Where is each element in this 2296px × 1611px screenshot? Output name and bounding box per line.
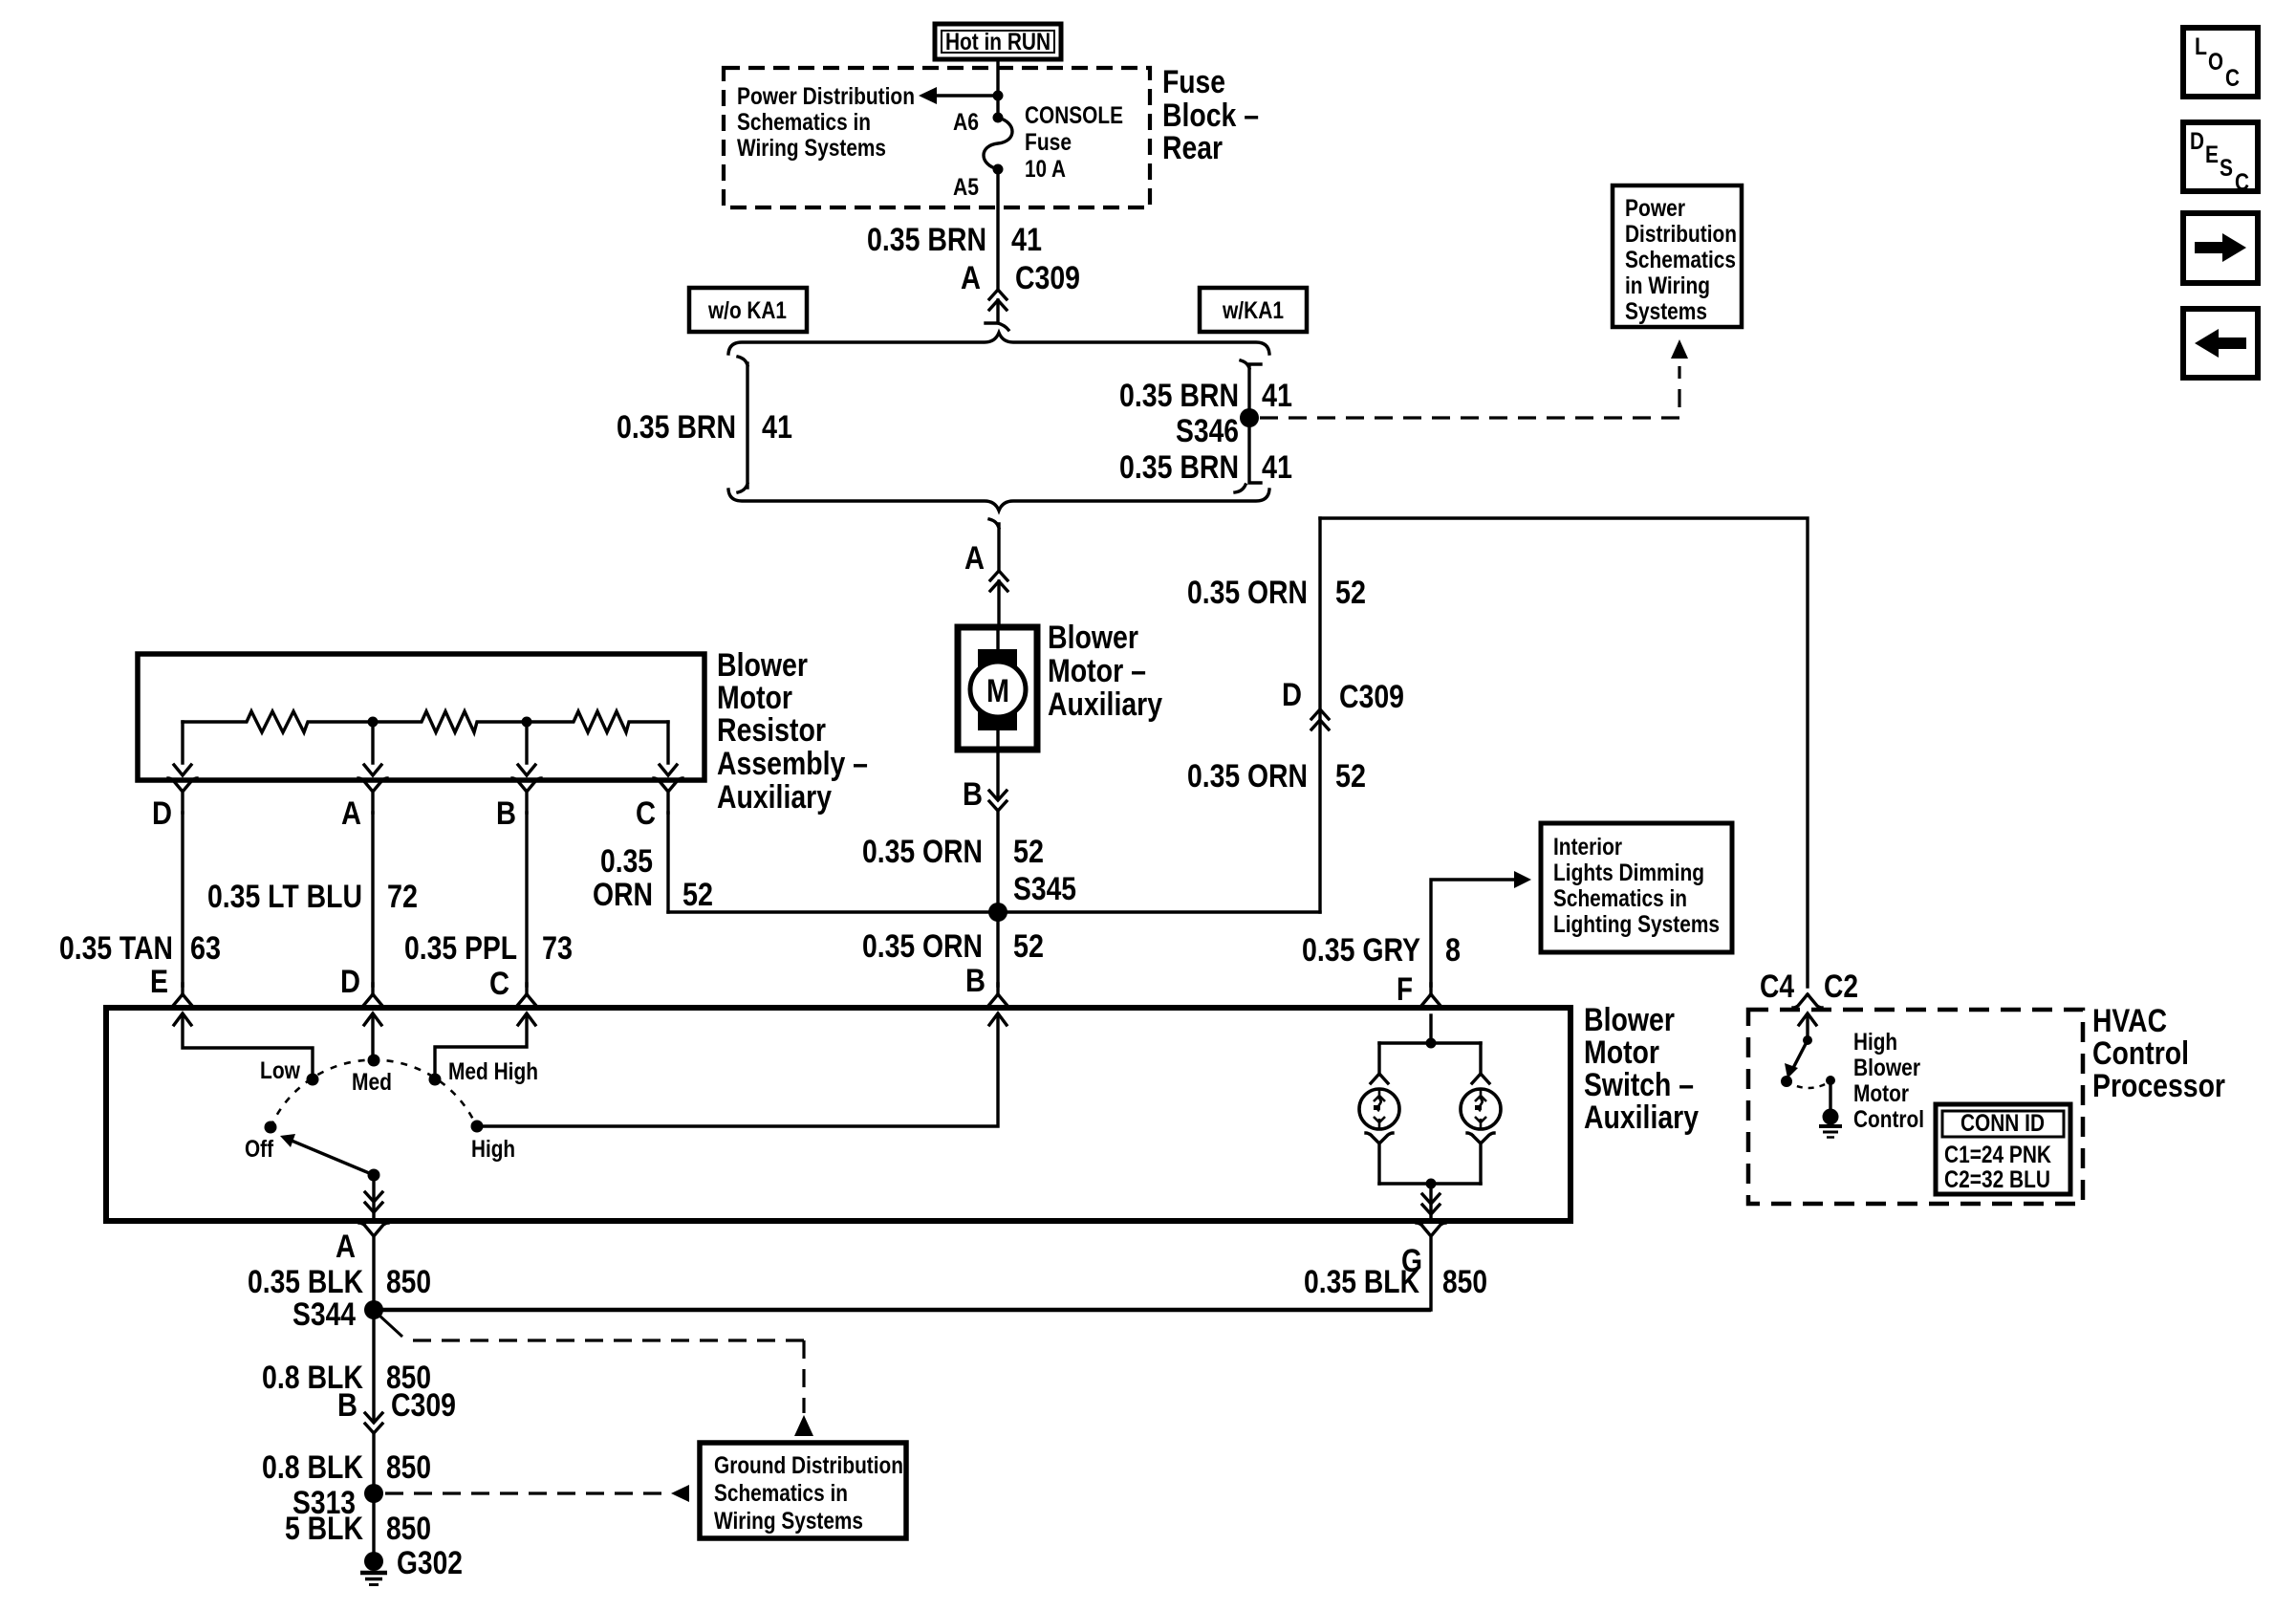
svg-text:O: O xyxy=(2208,49,2223,76)
node resistor junction B xyxy=(522,717,532,728)
svg-text:B: B xyxy=(337,1387,357,1424)
svg-text:850: 850 xyxy=(386,1264,431,1300)
blower motor switch auxiliary box xyxy=(106,1008,1570,1221)
svg-text:S346: S346 xyxy=(1176,413,1239,449)
svg-text:0.35: 0.35 xyxy=(600,843,653,880)
svg-text:F: F xyxy=(1397,971,1413,1008)
svg-text:C1=24 PNK: C1=24 PNK xyxy=(1944,1142,2051,1168)
svg-text:Interior: Interior xyxy=(1553,834,1622,860)
svg-text:52: 52 xyxy=(1013,834,1044,870)
svg-text:E: E xyxy=(150,964,168,1000)
svg-text:C309: C309 xyxy=(1015,260,1080,296)
wire PPL 73 resistor B to switch C xyxy=(404,813,573,986)
svg-text:Motor: Motor xyxy=(1853,1080,1909,1107)
svg-text:0.35 BRN: 0.35 BRN xyxy=(867,222,986,258)
wire S345 horizontal bus xyxy=(668,910,1320,913)
icon back arrow box xyxy=(2183,309,2258,378)
svg-text:Auxiliary: Auxiliary xyxy=(1048,686,1162,723)
svg-text:B: B xyxy=(963,776,983,813)
wire ORN 52 right riser from S345 xyxy=(1187,518,1366,912)
node w/o KA1 box xyxy=(689,288,807,332)
wire w/KA1 branch BRN 41 upper xyxy=(1119,360,1292,418)
svg-text:Lights Dimming: Lights Dimming xyxy=(1553,860,1704,886)
icon forward arrow box xyxy=(2183,213,2258,283)
svg-text:A: A xyxy=(964,540,985,577)
svg-text:Motor: Motor xyxy=(1584,1034,1659,1071)
svg-text:Fuse: Fuse xyxy=(1162,64,1225,100)
node switch Off contact xyxy=(265,1121,277,1134)
svg-text:Power Distribution: Power Distribution xyxy=(737,83,915,110)
svg-text:C309: C309 xyxy=(1339,679,1404,715)
label Blower Motor Resistor Assembly - Auxiliary xyxy=(717,647,868,816)
wire from Hot in RUN down xyxy=(996,59,999,118)
lamp left illumination xyxy=(1359,1074,1399,1184)
wire arrow to power distribution xyxy=(919,87,998,104)
svg-text:High: High xyxy=(1853,1029,1897,1056)
connector C309 pin B xyxy=(337,1387,456,1433)
resistor R3 xyxy=(527,711,668,732)
svg-text:Wiring Systems: Wiring Systems xyxy=(737,135,886,162)
wire ORN 52 from motor B to S345 xyxy=(862,811,1044,912)
svg-text:0.35 BRN: 0.35 BRN xyxy=(1119,378,1239,414)
svg-text:Fuse: Fuse xyxy=(1025,129,1072,156)
switch contact E arrow and stem to Low xyxy=(174,1013,313,1074)
wire ORN 52 from S345 down to switch B xyxy=(862,912,1044,986)
HVAC control processor dashed box xyxy=(1748,1010,2083,1204)
svg-text:Med: Med xyxy=(352,1069,392,1096)
blower motor auxiliary M1 xyxy=(958,627,1037,750)
svg-text:M: M xyxy=(986,673,1009,709)
note Power Distribution Schematics in Wiring Systems xyxy=(737,83,915,162)
wire w/o KA1 branch BRN 41 xyxy=(617,357,792,492)
svg-text:Schematics in: Schematics in xyxy=(1553,885,1687,912)
svg-text:52: 52 xyxy=(682,877,713,913)
connector switch pin G below xyxy=(1401,1223,1445,1310)
svg-text:C309: C309 xyxy=(391,1387,456,1424)
svg-text:A6: A6 xyxy=(953,109,979,136)
connector switch pin D xyxy=(340,964,387,1008)
svg-text:ORN: ORN xyxy=(593,877,653,913)
HVAC switch lever to off position xyxy=(1781,1040,1808,1087)
note box Power Distribution Schematics in Wiring Systems xyxy=(1613,185,1742,327)
wire LT BLU 72 resistor A to switch D xyxy=(207,813,418,986)
svg-text:High: High xyxy=(471,1136,515,1163)
HVAC dashed throw arc xyxy=(1787,1081,1830,1088)
svg-text:Off: Off xyxy=(245,1136,274,1163)
brace lower option merge xyxy=(728,490,1269,511)
connector resistor pin C xyxy=(636,778,682,832)
svg-text:G302: G302 xyxy=(397,1545,463,1581)
resistor R2 xyxy=(373,711,527,732)
svg-text:0.35 BRN: 0.35 BRN xyxy=(1119,449,1239,486)
svg-text:Wiring Systems: Wiring Systems xyxy=(714,1508,863,1535)
svg-text:8: 8 xyxy=(1445,932,1461,969)
svg-text:C: C xyxy=(2225,65,2240,92)
wire from option merge to blower motor xyxy=(964,519,999,577)
svg-text:52: 52 xyxy=(1335,758,1366,795)
svg-text:0.35 ORN: 0.35 ORN xyxy=(1187,575,1308,611)
svg-text:Ground Distribution: Ground Distribution xyxy=(714,1452,903,1479)
wire GRY 8 from switch F to interior lights xyxy=(1302,871,1531,1008)
label Blower Motor Switch - Auxiliary xyxy=(1584,1002,1699,1136)
svg-text:Auxiliary: Auxiliary xyxy=(717,779,832,816)
svg-text:850: 850 xyxy=(1442,1264,1487,1300)
svg-text:0.35 BLK: 0.35 BLK xyxy=(1304,1264,1419,1300)
svg-text:in Wiring: in Wiring xyxy=(1625,272,1710,299)
splice S346 xyxy=(1176,408,1259,449)
svg-text:Switch –: Switch – xyxy=(1584,1067,1694,1103)
label 0.35 BRN 41 xyxy=(867,222,1042,258)
svg-text:w/o KA1: w/o KA1 xyxy=(707,297,787,324)
svg-text:52: 52 xyxy=(1335,575,1366,611)
wire ORN 52 top run to HVAC C2 xyxy=(1320,518,1808,987)
svg-text:Control: Control xyxy=(2092,1035,2189,1072)
HVAC high blower contact arrow xyxy=(1799,1013,1816,1045)
icon DESC box xyxy=(2183,122,2258,196)
icon LOC box xyxy=(2183,28,2258,97)
wire 5 BLK 850 to G302 xyxy=(285,1493,431,1553)
svg-text:C: C xyxy=(636,795,656,832)
svg-text:10 A: 10 A xyxy=(1025,156,1066,183)
svg-text:850: 850 xyxy=(386,1449,431,1486)
switch rotary dashed arc xyxy=(271,1060,477,1127)
wire 0.8 BLK 850 from S344 down xyxy=(262,1310,431,1419)
wire lamp branches join to pin G xyxy=(1379,1179,1481,1219)
wire w/KA1 branch BRN 41 lower xyxy=(1119,418,1292,492)
wire wiper to switch pin A with arrows xyxy=(365,1175,382,1218)
svg-text:0.35 ORN: 0.35 ORN xyxy=(862,834,983,870)
switch lamp branch from pin F xyxy=(1379,1015,1481,1075)
svg-text:C2=32 BLU: C2=32 BLU xyxy=(1944,1166,2050,1193)
svg-text:Motor: Motor xyxy=(717,680,792,716)
svg-text:C4: C4 xyxy=(1760,969,1794,1005)
connector switch pin C xyxy=(489,966,541,1008)
svg-text:Med High: Med High xyxy=(448,1058,538,1085)
svg-text:850: 850 xyxy=(386,1511,431,1547)
wire resistor drop D with arrow xyxy=(174,722,191,775)
svg-text:0.35 PPL: 0.35 PPL xyxy=(404,930,517,967)
svg-text:B: B xyxy=(496,795,516,832)
label Blower Motor - Auxiliary xyxy=(1048,620,1162,723)
label HVAC Control Processor xyxy=(2092,1003,2225,1104)
connector HVAC pin C2 xyxy=(1793,994,1822,1008)
svg-text:Low: Low xyxy=(260,1057,300,1084)
svg-text:C: C xyxy=(489,966,509,1002)
wire dashed reference from S313 to ground distribution box xyxy=(385,1485,689,1502)
node Hot in RUN box xyxy=(935,24,1061,59)
wire resistor drop C with arrow xyxy=(660,722,677,775)
ground G302 xyxy=(360,1545,463,1585)
wire TAN 63 resistor D to switch E xyxy=(59,813,221,986)
svg-text:0.35 BLK: 0.35 BLK xyxy=(248,1264,363,1300)
node switch Med contact xyxy=(368,1055,380,1067)
svg-text:L: L xyxy=(2195,33,2207,60)
wire ORN 52 resistor C to S345 bus xyxy=(593,813,713,913)
svg-text:Block –: Block – xyxy=(1162,98,1259,134)
svg-text:Power: Power xyxy=(1625,195,1685,222)
svg-text:Systems: Systems xyxy=(1625,298,1707,325)
svg-text:41: 41 xyxy=(1262,378,1292,414)
wire dashed reference from S344 to ground distribution box xyxy=(379,1316,813,1436)
note box Interior Lights Dimming Schematics in Lighting Systems xyxy=(1541,823,1732,952)
svg-text:Assembly –: Assembly – xyxy=(717,746,868,782)
wire BLK 850 from switch A to S344 xyxy=(248,1264,431,1300)
label High Blower Motor Control xyxy=(1853,1029,1924,1133)
svg-text:D: D xyxy=(1282,677,1302,713)
svg-text:0.35 ORN: 0.35 ORN xyxy=(862,928,983,965)
connector resistor pin B xyxy=(496,778,541,832)
svg-text:0.35 BRN: 0.35 BRN xyxy=(617,409,736,446)
svg-text:72: 72 xyxy=(387,879,418,915)
svg-text:Blower: Blower xyxy=(1584,1002,1675,1038)
node w/KA1 box xyxy=(1200,288,1307,332)
brace upper option split xyxy=(728,333,1269,354)
svg-text:C2: C2 xyxy=(1824,969,1858,1005)
lamp right illumination xyxy=(1461,1074,1501,1184)
svg-text:A5: A5 xyxy=(953,174,979,201)
connector blower motor pin B xyxy=(963,750,1007,813)
svg-text:Schematics in: Schematics in xyxy=(714,1480,848,1507)
svg-text:63: 63 xyxy=(190,930,221,967)
fuse block dashed outline xyxy=(724,68,1150,207)
svg-text:A: A xyxy=(336,1229,356,1265)
wire dashed reference from S346 to power distribution box xyxy=(1260,339,1688,418)
switch contact B arrow and stem to High xyxy=(477,1013,1007,1126)
svg-text:Motor –: Motor – xyxy=(1048,653,1146,689)
svg-text:52: 52 xyxy=(1013,928,1044,965)
wire resistor drop B with arrow xyxy=(518,722,535,775)
svg-text:0.35 ORN: 0.35 ORN xyxy=(1187,758,1308,795)
svg-text:Schematics in: Schematics in xyxy=(737,109,871,136)
svg-text:E: E xyxy=(2205,142,2219,168)
label C4 C2 xyxy=(1760,969,1858,1005)
connector switch pin F xyxy=(1417,984,1445,1008)
svg-text:Blower: Blower xyxy=(1048,620,1138,656)
node junction dot at arrow xyxy=(993,91,1004,101)
svg-text:0.35 TAN: 0.35 TAN xyxy=(59,930,173,967)
svg-text:Resistor: Resistor xyxy=(717,712,826,749)
svg-text:Auxiliary: Auxiliary xyxy=(1584,1099,1699,1136)
svg-text:73: 73 xyxy=(542,930,573,967)
wire BRN 41 from fuse A5 down xyxy=(996,169,999,290)
splice S345 xyxy=(988,871,1076,922)
blower motor resistor assembly box xyxy=(138,654,704,780)
svg-text:S: S xyxy=(2220,155,2233,182)
splice S344 xyxy=(292,1296,383,1333)
svg-text:D: D xyxy=(2190,128,2204,155)
resistor R1 xyxy=(183,711,373,732)
svg-text:C: C xyxy=(2235,169,2249,196)
svg-text:w/KA1: w/KA1 xyxy=(1222,297,1284,324)
HVAC high blower motor control post with ground xyxy=(1819,1076,1842,1138)
node resistor junction A xyxy=(368,717,379,728)
svg-text:HVAC: HVAC xyxy=(2092,1003,2167,1039)
svg-text:Control: Control xyxy=(1853,1106,1924,1133)
connector switch pin B xyxy=(965,963,1012,1008)
svg-text:Distribution: Distribution xyxy=(1625,221,1737,248)
svg-text:S344: S344 xyxy=(292,1296,356,1333)
svg-text:0.35 LT BLU: 0.35 LT BLU xyxy=(207,879,362,915)
wire resistor drop A with arrow xyxy=(364,722,381,775)
svg-text:41: 41 xyxy=(1011,222,1042,258)
svg-text:Hot in RUN: Hot in RUN xyxy=(945,29,1051,55)
svg-text:5 BLK: 5 BLK xyxy=(285,1511,363,1547)
svg-text:B: B xyxy=(965,963,986,999)
connector switch pin A below xyxy=(336,1223,388,1310)
connector switch pin E xyxy=(150,964,197,1008)
connector resistor pin D xyxy=(152,778,197,832)
connector resistor pin A xyxy=(341,778,387,832)
svg-text:A: A xyxy=(961,260,981,296)
note box Ground Distribution Schematics in Wiring Systems xyxy=(700,1443,906,1538)
svg-text:Blower: Blower xyxy=(1853,1055,1920,1081)
switch wiper lever with arrow xyxy=(280,1134,380,1182)
connector C309 pin A xyxy=(961,260,1080,330)
switch contact C arrow and stem to Med High xyxy=(435,1013,535,1074)
fuse block label Fuse Block - Rear xyxy=(1162,64,1259,166)
svg-text:Blower: Blower xyxy=(717,647,808,684)
svg-text:CONSOLE: CONSOLE xyxy=(1025,102,1123,129)
svg-text:CONN ID: CONN ID xyxy=(1960,1110,2045,1137)
svg-text:Rear: Rear xyxy=(1162,130,1223,166)
connector C309 pin D xyxy=(1282,677,1404,729)
node switch Med High contact xyxy=(429,1074,442,1086)
wire BLK 850 from switch G to S344 bus xyxy=(374,1264,1487,1310)
svg-text:S345: S345 xyxy=(1013,871,1076,907)
fuse F1 CONSOLE 10A xyxy=(953,102,1123,201)
wire 0.8 BLK 850 to S313 xyxy=(262,1433,431,1493)
svg-text:0.35 GRY: 0.35 GRY xyxy=(1302,932,1420,969)
svg-text:0.8 BLK: 0.8 BLK xyxy=(262,1449,363,1486)
node switch High contact xyxy=(471,1121,484,1133)
CONN ID table xyxy=(1936,1104,2070,1194)
svg-text:D: D xyxy=(152,795,172,832)
svg-text:D: D xyxy=(340,964,360,1000)
node switch Low contact xyxy=(307,1074,319,1086)
svg-text:Processor: Processor xyxy=(2092,1068,2225,1104)
svg-text:A: A xyxy=(341,795,361,832)
svg-text:41: 41 xyxy=(762,409,792,446)
svg-text:Lighting Systems: Lighting Systems xyxy=(1553,911,1720,938)
svg-text:Schematics: Schematics xyxy=(1625,247,1736,273)
connector blower motor pin A xyxy=(990,571,1007,627)
switch contact D arrow and stem to Med xyxy=(364,1013,381,1056)
splice S313 xyxy=(292,1484,383,1521)
svg-text:41: 41 xyxy=(1262,449,1292,486)
